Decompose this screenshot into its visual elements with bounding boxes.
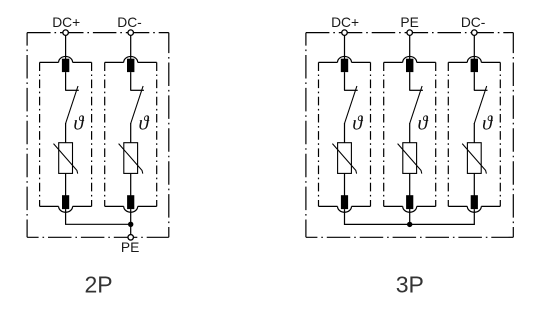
3P wire: PE branch down to common bus (409, 209, 411, 224)
2P: SPD module box (branch DC+) (40, 62, 92, 206)
thermal disconnector (black block, branch PE) (406, 59, 413, 72)
svg-text:PE: PE (400, 15, 418, 30)
switch fixed contact (seat) (65, 89, 79, 91)
theta symbol (temperature) (74, 115, 84, 129)
thermal disconnector (black block, branch DC+) (62, 59, 69, 72)
lead-through arc (top of module box) (338, 56, 352, 62)
wire: disconnector to switch (130, 72, 132, 90)
wire: switch to varistor (409, 123, 411, 144)
svg-text:DC+: DC+ (52, 15, 80, 30)
switch blade (open thermal switch) (474, 86, 486, 124)
varistor (MOV, branch DC+) (338, 143, 352, 174)
3P wire: DC+ branch down to common bus (345, 209, 410, 224)
svg-text:3P: 3P (396, 271, 424, 297)
2P junction node (128, 222, 133, 227)
wire: varistor to bottom terminal block (65, 173, 67, 196)
wire: switch to varistor (473, 123, 475, 144)
thermal disconnector (black block, branch DC-) (471, 59, 478, 72)
svg-text:DC-: DC- (461, 15, 486, 30)
varistor (MOV, branch DC+) (59, 143, 73, 174)
2P wire: DC- branch down to PE terminal (130, 209, 132, 234)
switch fixed contact (seat) (344, 89, 358, 91)
lead-through arc (bottom of module box) (403, 206, 417, 212)
3P junction node (407, 222, 412, 227)
switch fixed contact (seat) (474, 89, 488, 91)
terminal DC- (128, 30, 134, 36)
wire: terminal DC- down to disconnector (130, 35, 132, 59)
svg-text:DC+: DC+ (331, 15, 359, 30)
bottom terminal block (black block, branch DC+) (62, 195, 69, 209)
wire: disconnector to switch (65, 72, 67, 90)
lead-through arc (top of module box) (467, 56, 481, 62)
lead-through arc (top of module box) (124, 56, 138, 62)
svg-text:PE: PE (121, 240, 139, 255)
theta symbol (temperature) (139, 115, 149, 129)
3P wire: DC- branch down to common bus (410, 209, 475, 224)
varistor (MOV, branch PE) (403, 143, 417, 174)
thermal disconnector (black block, branch DC-) (127, 59, 134, 72)
wire: switch to varistor (130, 123, 132, 144)
switch blade (open thermal switch) (345, 86, 357, 124)
varistor (MOV, branch DC-) (124, 143, 138, 174)
terminal DC+ (342, 30, 348, 36)
2P wire: DC+ branch down to PE bus (66, 209, 131, 224)
terminal DC+ (63, 30, 69, 36)
wire: disconnector to switch (473, 72, 475, 90)
wire: varistor to bottom terminal block (473, 173, 475, 196)
3P: SPD module box (branch DC-) (448, 62, 500, 206)
terminal PE (407, 30, 413, 36)
bottom terminal block (black block, branch PE) (406, 195, 413, 209)
wire: disconnector to switch (344, 72, 346, 90)
2P: outer enclosure (dash-dot box) (27, 32, 169, 34)
switch blade (open thermal switch) (131, 86, 143, 124)
wire: terminal DC- down to disconnector (473, 35, 475, 59)
wire: varistor to bottom terminal block (130, 173, 132, 196)
lead-through arc (bottom of module box) (338, 206, 352, 212)
wire: terminal PE down to disconnector (409, 35, 411, 59)
wire: disconnector to switch (409, 72, 411, 90)
varistor (MOV, branch DC-) (467, 143, 481, 174)
theta symbol (temperature) (353, 115, 363, 129)
3P: SPD module box (branch PE) (384, 62, 436, 206)
wire: terminal DC+ down to disconnector (65, 35, 67, 59)
theta symbol (temperature) (483, 115, 493, 129)
lead-through arc (top of module box) (59, 56, 73, 62)
switch blade (open thermal switch) (66, 86, 78, 124)
switch fixed contact (seat) (130, 89, 144, 91)
3P: SPD module box (branch DC+) (319, 62, 371, 206)
bottom terminal block (black block, branch DC-) (471, 195, 478, 209)
2P: SPD module box (branch DC-) (105, 62, 157, 206)
theta symbol (temperature) (418, 115, 428, 129)
wire: varistor to bottom terminal block (409, 173, 411, 196)
bottom terminal block (black block, branch DC+) (341, 195, 348, 209)
wire: varistor to bottom terminal block (344, 173, 346, 196)
svg-text:DC-: DC- (117, 15, 142, 30)
2P terminal PE (bottom) (128, 235, 134, 241)
wire: switch to varistor (344, 123, 346, 144)
wire: terminal DC+ down to disconnector (344, 35, 346, 59)
lead-through arc (bottom of module box) (467, 206, 481, 212)
svg-text:2P: 2P (85, 272, 113, 298)
3P: outer enclosure (dash-dot box) (306, 32, 513, 34)
thermal disconnector (black block, branch DC+) (341, 59, 348, 72)
lead-through arc (bottom of module box) (59, 206, 73, 212)
lead-through arc (bottom of module box) (124, 206, 138, 212)
wire: switch to varistor (65, 123, 67, 144)
switch blade (open thermal switch) (410, 86, 422, 124)
bottom terminal block (black block, branch DC-) (127, 195, 134, 209)
terminal DC- (472, 30, 478, 36)
switch fixed contact (seat) (409, 89, 423, 91)
lead-through arc (top of module box) (403, 56, 417, 62)
